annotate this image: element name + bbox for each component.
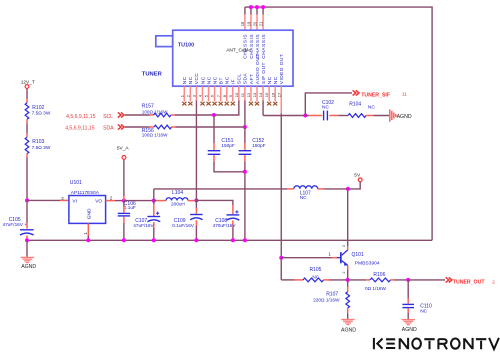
svg-text:NC: NC bbox=[273, 76, 279, 84]
svg-text:SIF OUT: SIF OUT bbox=[261, 62, 267, 84]
svg-text:CHASSIS: CHASSIS bbox=[261, 34, 267, 59]
svg-text:20: 20 bbox=[252, 21, 257, 26]
svg-text:470uF/16V: 470uF/16V bbox=[213, 223, 237, 228]
svg-text:NC: NC bbox=[300, 195, 307, 201]
svg-text:150pF: 150pF bbox=[252, 143, 265, 148]
svg-text:4,5,6,9,11,15: 4,5,6,9,11,15 bbox=[66, 114, 96, 120]
svg-text:AP1117E50A: AP1117E50A bbox=[71, 190, 100, 196]
svg-text:0Ω 1/16W: 0Ω 1/16W bbox=[365, 286, 387, 291]
svg-text:R107: R107 bbox=[326, 291, 338, 297]
svg-text:21: 21 bbox=[258, 21, 263, 26]
svg-text:TUNER_SIF: TUNER_SIF bbox=[361, 92, 390, 98]
svg-text:11: 11 bbox=[402, 92, 407, 98]
svg-text:U101: U101 bbox=[70, 180, 82, 186]
svg-text:Q101: Q101 bbox=[352, 252, 364, 258]
svg-text:200uH: 200uH bbox=[171, 202, 185, 207]
svg-text:R104: R104 bbox=[349, 101, 361, 107]
svg-text:R103: R103 bbox=[32, 139, 44, 145]
svg-text:CHASSIS: CHASSIS bbox=[249, 34, 255, 59]
svg-text:4,5,6,9,11,15: 4,5,6,9,11,15 bbox=[65, 125, 95, 131]
svg-text:7.5Ω 3W: 7.5Ω 3W bbox=[32, 110, 51, 116]
svg-text:TUNER_OUT: TUNER_OUT bbox=[453, 280, 486, 286]
svg-text:VIDEO OUT: VIDEO OUT bbox=[279, 54, 285, 84]
svg-text:220Ω 1/16W: 220Ω 1/16W bbox=[313, 297, 340, 302]
svg-text:NC: NC bbox=[312, 275, 319, 281]
svg-text:NC: NC bbox=[188, 76, 194, 84]
svg-text:3: 3 bbox=[342, 245, 346, 247]
svg-text:AGND: AGND bbox=[397, 114, 412, 120]
svg-text:TUNER: TUNER bbox=[142, 72, 163, 78]
svg-text:IF: IF bbox=[231, 79, 237, 84]
svg-text:NC: NC bbox=[206, 76, 212, 84]
svg-text:SCL: SCL bbox=[237, 74, 243, 85]
svg-text:SDA: SDA bbox=[243, 73, 249, 85]
svg-text:GND: GND bbox=[87, 208, 93, 219]
svg-text:VO: VO bbox=[95, 199, 102, 205]
svg-text:AGND: AGND bbox=[402, 327, 417, 333]
svg-text:AUDIO OUT: AUDIO OUT bbox=[255, 53, 261, 84]
svg-text:VCC: VCC bbox=[194, 73, 200, 85]
svg-text:7.5Ω 3W: 7.5Ω 3W bbox=[32, 145, 51, 151]
svg-text:47uF/16V +: 47uF/16V + bbox=[3, 222, 28, 227]
svg-text:CHASSIS: CHASSIS bbox=[243, 34, 249, 59]
svg-text:TU100: TU100 bbox=[178, 42, 194, 48]
svg-text:NC: NC bbox=[322, 105, 329, 111]
svg-text:47uF/16V: 47uF/16V bbox=[133, 223, 154, 228]
svg-text:100Ω 1/16W: 100Ω 1/16W bbox=[142, 133, 168, 138]
svg-text:SCL: SCL bbox=[103, 114, 113, 120]
svg-text:NC: NC bbox=[200, 76, 206, 84]
svg-text:L104: L104 bbox=[172, 190, 183, 196]
svg-text:100Ω 1/16W: 100Ω 1/16W bbox=[142, 109, 168, 114]
svg-text:AGND: AGND bbox=[21, 264, 36, 270]
svg-text:AGND: AGND bbox=[341, 327, 356, 333]
svg-text:SDA: SDA bbox=[103, 125, 114, 131]
svg-text:150pF: 150pF bbox=[221, 143, 234, 148]
svg-text:NC: NC bbox=[267, 76, 273, 84]
svg-text:R102: R102 bbox=[32, 105, 44, 111]
svg-text:AFT: AFT bbox=[249, 74, 255, 84]
svg-text:2: 2 bbox=[492, 279, 495, 285]
svg-text:ANT_Cable: ANT_Cable bbox=[226, 47, 251, 53]
svg-text:R105: R105 bbox=[310, 267, 322, 273]
svg-text:NC: NC bbox=[225, 76, 231, 84]
svg-text:R106: R106 bbox=[373, 272, 385, 278]
svg-text:19: 19 bbox=[246, 21, 251, 26]
svg-text:5V_A: 5V_A bbox=[117, 145, 130, 151]
svg-text:NC: NC bbox=[368, 104, 375, 110]
svg-text:VI: VI bbox=[72, 199, 77, 205]
svg-text:NC: NC bbox=[420, 309, 427, 315]
svg-text:2: 2 bbox=[342, 271, 346, 273]
svg-text:18: 18 bbox=[240, 21, 245, 26]
svg-text:0.1uF: 0.1uF bbox=[124, 205, 136, 210]
svg-text:PMBS3904: PMBS3904 bbox=[355, 261, 380, 267]
svg-text:NC: NC bbox=[182, 76, 188, 84]
svg-text:NC: NC bbox=[212, 76, 218, 84]
svg-text:0.1uF/16V: 0.1uF/16V bbox=[172, 223, 195, 228]
svg-text:BT: BT bbox=[218, 77, 224, 84]
